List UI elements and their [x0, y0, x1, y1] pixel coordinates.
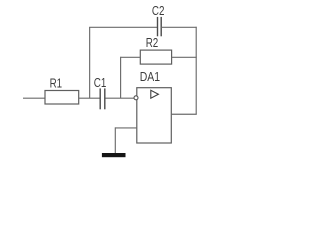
svg-text:C2: C2: [152, 5, 165, 18]
svg-text:C1: C1: [94, 77, 107, 90]
node circle at inverting input: [134, 96, 138, 100]
resistor R1: [45, 78, 79, 104]
resistor R2: [140, 37, 171, 64]
capacitor C2: [152, 5, 165, 37]
wire output: [171, 113, 196, 115]
capacitor C1: [94, 77, 107, 110]
wire R1 to C1: [79, 97, 100, 99]
wire input stub: [23, 97, 45, 99]
svg-text:R2: R2: [146, 37, 159, 50]
wire R2 right: [172, 56, 197, 58]
wire left riser to C2 branch: [89, 27, 91, 98]
wire non-inverting input: [115, 127, 137, 129]
wire ground stem: [114, 127, 116, 153]
ground: [102, 153, 126, 157]
svg-text:DA1: DA1: [140, 71, 160, 84]
wire right vertical: [195, 27, 197, 114]
wire top branch right: [161, 26, 197, 28]
wire R2 vertical drop: [120, 57, 122, 98]
wire C1 to input node: [105, 97, 134, 99]
svg-text:R1: R1: [50, 78, 63, 91]
op-amp DA1: [137, 71, 172, 143]
wire top branch left: [89, 26, 157, 28]
wire R2 left: [121, 56, 141, 58]
